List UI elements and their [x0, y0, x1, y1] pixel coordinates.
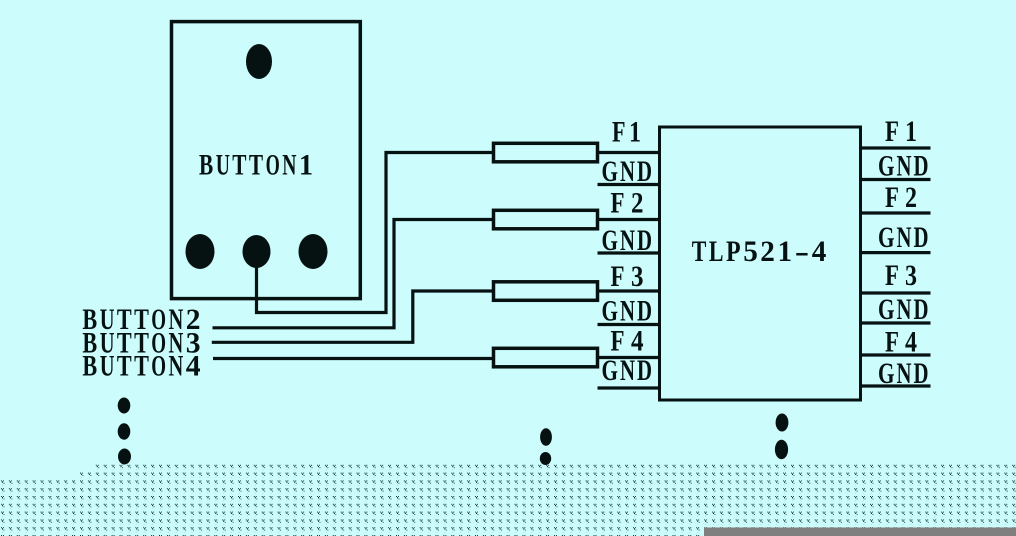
wire BUTTON1 pin2 to resistor R1: [257, 153, 494, 313]
ellipsis dot right 1: [776, 414, 789, 432]
resistor R4: [494, 348, 598, 367]
svg-text:BUTTON4: BUTTON4: [82, 350, 200, 383]
ellipsis dot middle 2: [540, 452, 551, 465]
left pin line GND 2: [598, 251, 661, 254]
ellipsis dot middle 1: [540, 428, 552, 446]
right pin line F4: [860, 353, 931, 356]
left pin line GND 1: [598, 183, 661, 186]
right pin line F2: [860, 211, 931, 214]
ellipsis dot left 1: [118, 398, 131, 414]
wire BUTTON2 to resistor R2: [213, 220, 494, 328]
right pin line GND 1: [860, 178, 931, 181]
wire R3 to U1 pin F3: [599, 289, 660, 292]
svg-text:GND: GND: [878, 149, 929, 182]
left pin line GND 3: [598, 323, 661, 326]
svg-text:GND: GND: [602, 354, 653, 387]
connector BUTTON1 box: [172, 22, 361, 299]
opto-coupler U1 TLP521-4 box: [660, 127, 861, 400]
wire BUTTON3 to resistor R3: [212, 291, 493, 342]
BUTTON1 top pin pad: [246, 44, 272, 79]
ellipsis dot right 2: [775, 440, 788, 459]
right pin line GND 2: [860, 251, 931, 254]
ellipsis dot left 3: [118, 449, 131, 465]
wire R2 to U1 pin F2: [599, 218, 660, 221]
right pin line GND 4: [860, 384, 931, 387]
svg-text:GND: GND: [878, 221, 929, 254]
halftone texture region at bottom: [0, 464, 1016, 536]
wire R1 to U1 pin F1: [599, 151, 660, 154]
right pin line F3: [860, 291, 931, 294]
BUTTON1 bottom pin pad 2: [243, 235, 271, 268]
svg-text:BUTTON1: BUTTON1: [199, 149, 313, 182]
resistor R3: [494, 282, 598, 301]
BUTTON1 bottom pin pad 1: [186, 234, 215, 269]
BUTTON1 bottom pin pad 3: [299, 234, 328, 269]
wire BUTTON4 to resistor R4: [213, 357, 493, 360]
resistor R1: [494, 143, 598, 162]
resistor R2: [494, 210, 598, 229]
right pin line GND 3: [860, 321, 931, 324]
svg-text:GND: GND: [602, 295, 653, 328]
right pin line F1: [860, 146, 931, 149]
svg-text:GND: GND: [878, 293, 929, 326]
wire R4 to U1 pin F4: [599, 356, 660, 359]
gray scrollbar bar bottom right: [704, 528, 1016, 536]
left pin line GND 4: [598, 386, 661, 389]
ellipsis dot left 2: [118, 423, 131, 439]
